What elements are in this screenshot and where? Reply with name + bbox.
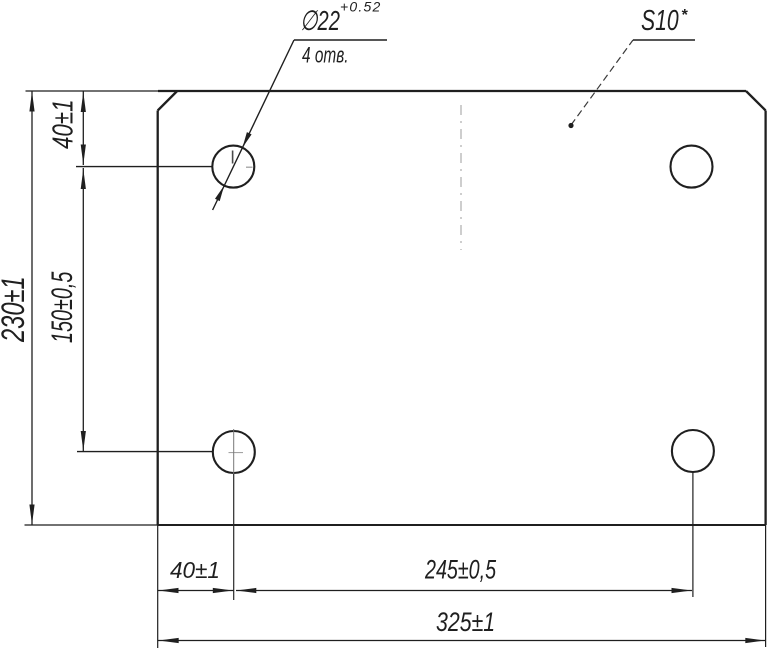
dimension line 245±0,5 <box>236 590 692 592</box>
svg-text:40±1: 40±1 <box>48 99 79 149</box>
hole top-left center tick <box>232 151 234 164</box>
extension line below bottom-left hole (vertical) <box>233 429 235 474</box>
plate top edge with left extension line <box>26 90 159 92</box>
leader line for S10 thickness (dashed) <box>571 40 633 125</box>
svg-text:*: * <box>681 7 688 24</box>
plate bottom edge with left extension <box>25 524 159 526</box>
plate right edge <box>764 111 766 526</box>
dimension line 230±1 <box>31 91 33 525</box>
leader shelf S10 <box>633 39 695 41</box>
plate left edge <box>157 111 159 526</box>
hole top-right <box>671 146 713 188</box>
hole bottom-right <box>672 430 714 472</box>
left edge extension line down <box>157 525 159 648</box>
plate chamfer top-left <box>158 91 178 111</box>
dimension line 325±1 <box>158 640 766 642</box>
svg-text:325±1: 325±1 <box>436 608 495 638</box>
svg-text:4 отв.: 4 отв. <box>302 44 349 68</box>
plate chamfer top-right <box>746 91 766 111</box>
hole bottom-left <box>213 431 255 473</box>
svg-text:150±0,5: 150±0,5 <box>46 271 79 343</box>
leader shelf <box>294 39 387 41</box>
dimension line 40±1 (top left vertical) <box>82 91 84 165</box>
hole bottom-left center mark <box>229 452 244 454</box>
extension line below bottom-right hole (vertical) <box>692 472 694 597</box>
svg-text:230±1: 230±1 <box>0 276 31 342</box>
extension line through top-left hole centre (horizontal) <box>76 166 212 168</box>
dimension line 40±1 (bottom) <box>158 590 234 592</box>
leader line for hole diameter <box>213 40 294 210</box>
leader dot <box>568 123 573 128</box>
svg-text:+0.52: +0.52 <box>340 0 381 15</box>
svg-text:∅22: ∅22 <box>300 6 340 37</box>
dimension line 150±0,5 <box>82 168 84 452</box>
vertical center axis line (dash-dot) <box>460 105 462 250</box>
svg-text:S10: S10 <box>641 5 679 37</box>
svg-text:245±0,5: 245±0,5 <box>424 556 497 586</box>
right edge extension line down <box>765 525 767 647</box>
extension line through bottom-left hole centre (horizontal) <box>77 451 213 453</box>
svg-text:40±1: 40±1 <box>170 557 220 583</box>
hole top-left <box>212 146 254 188</box>
arrowhead upper (at hole edge) <box>242 132 251 148</box>
arrowhead lower (at hole edge) <box>215 186 224 202</box>
